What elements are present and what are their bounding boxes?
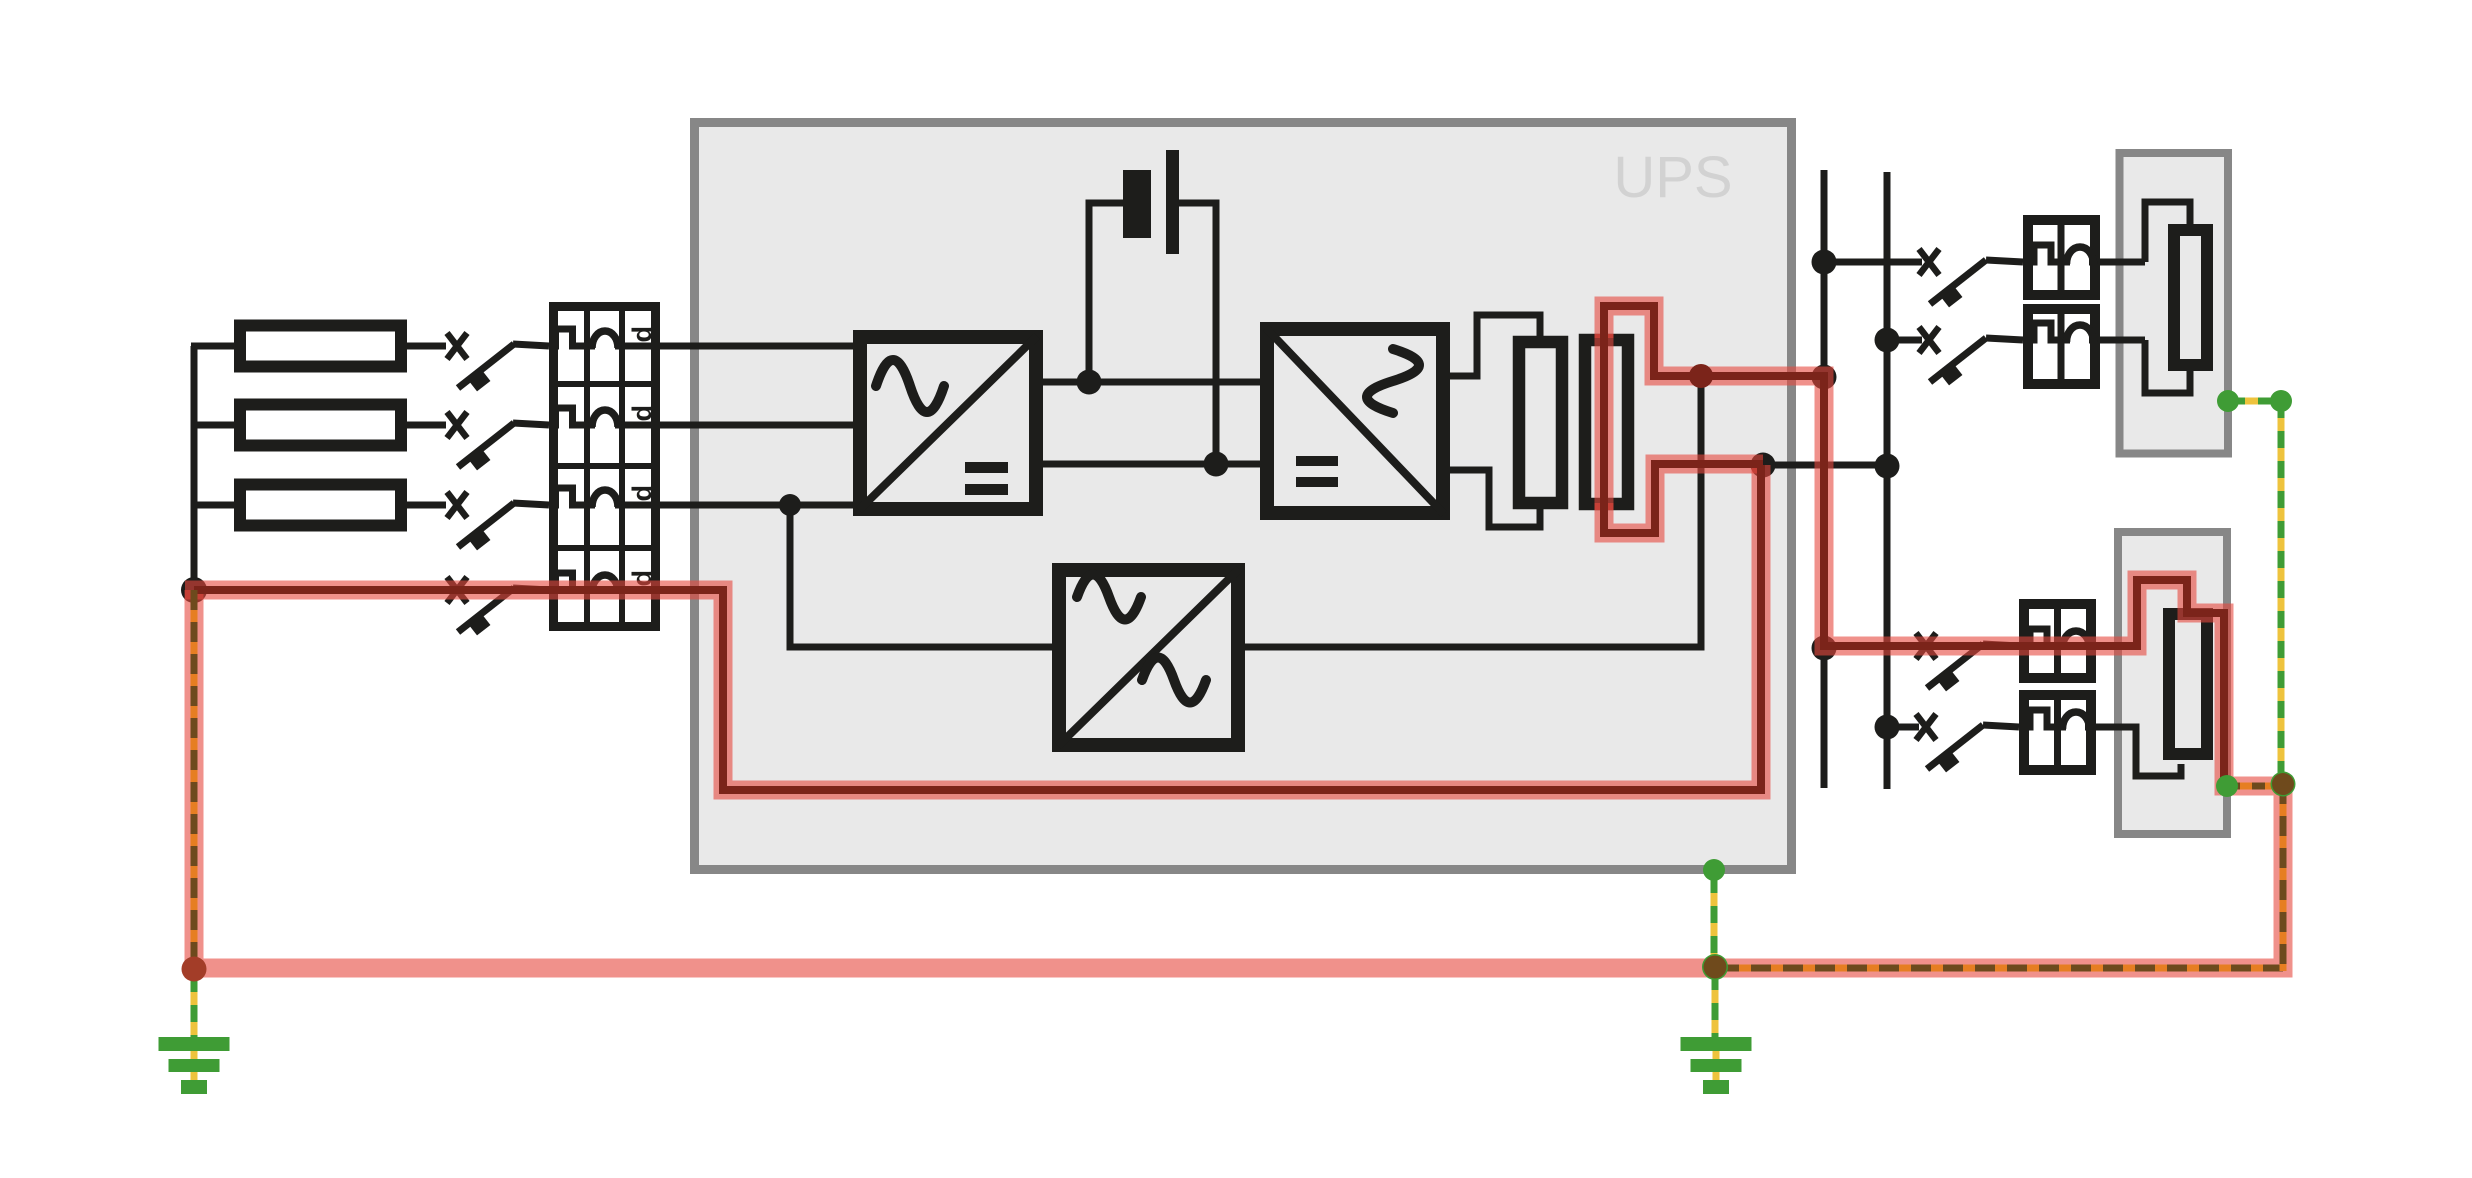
RCD breaker array Q1 frame	[549, 302, 660, 631]
svg-text:Id: Id	[627, 326, 657, 350]
PE conductor right riser lower	[2280, 784, 2287, 971]
node A dot	[1689, 364, 1713, 388]
PE conductor bottom right	[1715, 965, 2283, 972]
filter winding T1 secondary	[1585, 340, 1628, 504]
Id label row 1	[627, 326, 657, 350]
wire branch2	[1887, 337, 1922, 344]
wire S5 to breaker Q2	[1986, 260, 2023, 262]
earth node left	[182, 957, 207, 982]
wire G1 to switch S1	[407, 343, 446, 350]
wire S2 to Q1	[513, 423, 549, 425]
node busbar2 output	[1875, 454, 1900, 479]
PE node load2	[2271, 772, 2296, 797]
wire branch1	[1824, 259, 1922, 266]
Id label row 4	[627, 570, 657, 594]
PE node load1	[2270, 390, 2292, 412]
chassis earth node load1	[2217, 390, 2239, 412]
load panel box 2	[2118, 532, 2227, 834]
load LD2	[2169, 614, 2207, 754]
UPS label	[1613, 145, 1732, 210]
wire bus to G3	[191, 502, 234, 509]
UPS enclosure box	[695, 123, 1792, 870]
wire G2 to switch S2	[407, 422, 446, 429]
switch S7	[1916, 633, 1983, 691]
fault loop highlight	[185, 306, 2283, 968]
PE stem mid lower	[1712, 973, 1719, 1037]
UPS earth node	[1703, 859, 1725, 881]
breaker Q1 pole 2	[549, 408, 660, 429]
earth electrode left	[159, 1037, 230, 1094]
wire bus to switch S4	[191, 587, 446, 594]
switch S8	[1916, 714, 1983, 772]
PE riser upper	[2278, 401, 2285, 780]
wire S8 to breaker Q5	[1983, 725, 2019, 727]
breaker Q1 pole 3	[549, 488, 660, 509]
dc link wire bottom	[1043, 461, 1260, 468]
breaker Q4	[2019, 599, 2096, 683]
breaker Q1 pole 1	[549, 329, 660, 350]
wire inverter to primary top	[1450, 315, 1540, 376]
switch S1	[447, 333, 514, 391]
busbar 2	[1884, 172, 1891, 789]
PE stem UPS	[1711, 876, 1718, 961]
node B (UPS output N)	[1751, 453, 1776, 478]
node busbar1 output	[1812, 365, 1837, 390]
source bus	[191, 346, 198, 590]
node branch3	[1812, 636, 1837, 661]
filter winding T1 primary	[1519, 342, 1562, 503]
node bypass tap	[779, 494, 801, 516]
node branch2	[1875, 328, 1900, 353]
Id label row 3	[627, 485, 657, 509]
earth electrode mid	[1681, 1037, 1752, 1094]
switch S3	[447, 492, 514, 550]
wire Q2 to load box1	[2100, 259, 2145, 266]
source block G2	[240, 405, 401, 446]
svg-text:Id: Id	[627, 485, 657, 509]
wire S7 to breaker Q4	[1983, 644, 2019, 646]
wire inverter to primary bottom	[1450, 470, 1540, 527]
wire S4 to Q1	[513, 588, 549, 590]
Id label row 2	[627, 405, 657, 429]
wire bus to G1	[191, 343, 234, 350]
PE link load1	[2228, 398, 2281, 405]
node battery left	[1077, 370, 1102, 395]
wire branch4	[1887, 724, 1919, 731]
breaker Q5	[2019, 690, 2096, 775]
breaker Q1 pole 4	[549, 573, 660, 594]
load1 lead top	[2145, 202, 2190, 262]
wire Q1 pole 1 to rectifier	[660, 343, 853, 350]
PE link load2	[2227, 783, 2283, 790]
switch S6	[1919, 327, 1986, 385]
load panel box 1	[2120, 153, 2229, 454]
wire tap to bypass	[790, 505, 1052, 647]
wire Q1 pole 2 to rectifier	[660, 422, 853, 429]
node source bus bottom	[181, 577, 207, 603]
battery BT1	[1089, 150, 1216, 460]
dc link wire top	[1043, 379, 1260, 386]
breaker Q2	[2023, 215, 2100, 300]
wire S1 to Q1	[513, 344, 549, 346]
wire branch3	[1824, 643, 1919, 650]
node branch1	[1812, 250, 1837, 275]
source block G1	[240, 326, 401, 367]
wire bus to G2	[191, 422, 234, 429]
wire S6 to breaker Q3	[1986, 338, 2023, 340]
wire node B to busbar 2	[1763, 462, 1887, 469]
wire node A to busbar 1	[1701, 373, 1824, 380]
wire Q1 pole 3 to rectifier	[660, 502, 853, 509]
source block G3	[240, 485, 401, 526]
fault current core path	[194, 306, 2224, 790]
wire S3 to Q1	[513, 503, 549, 505]
PE stem left	[191, 975, 198, 1037]
switch S5	[1919, 249, 1986, 307]
wire Q5 to load box2	[2096, 727, 2181, 776]
wire Q3 to load box1	[2100, 337, 2145, 344]
node battery right	[1204, 452, 1229, 477]
PE conductor left vertical	[191, 590, 198, 968]
wire bypass to node A	[1245, 376, 1701, 647]
svg-text:UPS: UPS	[1613, 145, 1732, 210]
load1 lead bottom	[2145, 340, 2190, 393]
bypass converter U3 (AC/AC)	[1058, 569, 1239, 746]
node branch4	[1875, 715, 1900, 740]
load LD1	[2174, 230, 2207, 365]
svg-text:Id: Id	[627, 405, 657, 429]
inverter U2 (DC/AC)	[1266, 328, 1444, 514]
switch S4	[447, 577, 514, 635]
rectifier U1 (AC/DC)	[859, 336, 1037, 510]
earth node mid	[1702, 954, 1728, 980]
switch S2	[447, 412, 514, 470]
busbar 1	[1821, 170, 1828, 788]
chassis earth node load2	[2216, 775, 2238, 797]
breaker Q3	[2023, 304, 2100, 389]
wire G3 to switch S3	[407, 502, 446, 509]
